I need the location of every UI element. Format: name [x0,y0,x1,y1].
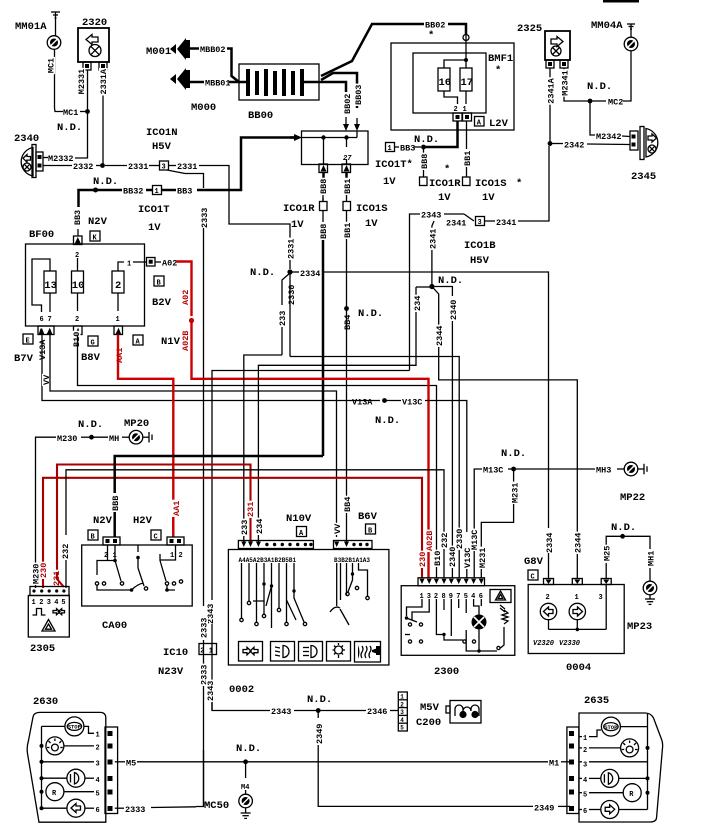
lamp STOP 2630 [42,717,95,736]
svg-text:1V: 1V [383,176,396,188]
square wave icon [33,609,46,616]
label 2341 vertical [429,228,438,250]
svg-text:2333: 2333 [200,618,210,638]
wire 233 into N10V [243,536,245,543]
svg-text:BBB: BBB [111,496,121,511]
wire MH1 [649,568,651,581]
svg-text:1V: 1V [482,192,495,204]
svg-text:MP22: MP22 [620,492,645,504]
svg-text:2349: 2349 [534,804,554,814]
wire to AO2 pin [133,261,146,263]
svg-text:ICO1R: ICO1R [283,203,315,215]
wire BB32 [96,189,123,192]
label BBB [420,153,429,170]
lamp icon in 2325 [551,46,561,56]
wire M230 [36,437,57,588]
svg-text:BB02: BB02 [425,21,445,31]
svg-text:2: 2 [200,648,204,656]
left arrow indicator circle [540,603,556,619]
wire diagonal from connector3 to 2333 [167,170,204,188]
svg-text:N.D.: N.D. [501,448,526,460]
svg-text:C: C [154,534,158,542]
pin BB1 bottom of box [342,164,351,178]
N10V internal wires [240,563,369,628]
wire BB03 leg inside [356,131,358,138]
svg-text:BMF1: BMF1 [488,53,513,65]
wire BB1 leg lower [346,159,348,164]
svg-text:N2V: N2V [93,515,113,527]
svg-text:N10V: N10V [286,513,312,525]
svg-text:13: 13 [44,280,57,292]
node 2334 junction [287,269,292,274]
wire BB02 to BMF1 [448,24,466,34]
label 2344 vertical [435,325,444,347]
label 2343 vertical lower [206,680,215,702]
wire 2343 horizontal [410,214,421,228]
node M25 junction [620,534,625,539]
node M231 junction [511,467,516,472]
label 2331A vertical [99,68,108,96]
connector pin ICO1R star [420,177,428,186]
wire MC2 [623,51,631,101]
wire A02B red down [192,321,429,533]
wire 231 red into N10V [249,518,251,543]
svg-text:M231: M231 [478,548,488,568]
wire M2331 [87,70,89,112]
svg-text:MC50: MC50 [204,800,229,812]
svg-text:2630: 2630 [33,696,58,708]
svg-text:MM04A: MM04A [591,20,623,32]
wire BB8 leg [323,138,325,165]
svg-text:MH3: MH3 [596,466,611,476]
earth point MH1 [643,581,657,595]
wire 232 bus [66,470,444,535]
label BB8 [319,178,328,195]
chassis symbol MP22 [638,464,647,475]
wire BB4 into N10V [346,513,348,543]
svg-text:C: C [531,574,535,582]
wire 2331A [102,70,104,166]
wire MBB01 [229,81,247,84]
svg-text:BB4: BB4 [343,315,353,330]
wire 2343 bottom corner [212,702,270,711]
wire 230 red bus [43,478,422,552]
svg-text:3: 3 [400,709,404,716]
connector H2V on CA00 [167,537,184,545]
svg-text:231: 231 [246,502,256,517]
svg-text:M1: M1 [549,759,559,769]
wire 2343 to diagonal [444,213,464,215]
svg-text:1: 1 [155,188,159,196]
wire V13C [385,400,402,402]
connector box 1 BB3 [386,143,400,154]
wire M4 to earth [245,790,247,794]
svg-text:M5: M5 [126,759,136,769]
svg-text:2: 2 [583,747,587,755]
wire M4 [245,762,247,778]
wire BB1 to pin [466,167,468,177]
svg-text:G: G [91,340,95,348]
label MH1 vertical [647,550,656,567]
svg-text:BB3: BB3 [400,144,415,154]
svg-text:V13A: V13A [352,398,373,408]
N10V icon box 5 fog lamp [355,642,381,663]
N10V icon box 1 turn signals [239,642,263,662]
svg-text:N2V: N2V [88,216,108,228]
wire M13C to dot [508,468,514,470]
wire V13C to 2300 [425,401,467,533]
label 231 red vertical at N10V [246,501,255,518]
connector strip 2300 [418,578,485,586]
svg-text:2343: 2343 [206,681,216,701]
svg-text:3: 3 [478,219,482,227]
wire 2334 into 0004 [548,553,550,579]
component 2305 box [28,596,69,638]
node V13A junction [382,398,387,403]
lamp R 2635 row5 [590,784,650,802]
wire 2344 down and right [439,347,578,533]
component N10V box [228,550,389,666]
svg-text:1: 1 [32,599,36,607]
BMF1 inner box [413,53,486,113]
svg-text:BB32: BB32 [123,187,143,197]
svg-text:H5V: H5V [152,141,172,153]
svg-text:5: 5 [61,599,65,607]
wire BB32 thick from corner [79,190,96,198]
connector block of 2345 [630,131,638,150]
svg-text:5: 5 [583,792,587,800]
wire 2332 from 2340 [43,165,72,167]
wire BB1 leg [346,138,348,148]
hazard triangle icon [42,620,55,632]
label 230 red vertical at 2300 [418,551,427,568]
svg-text:N.D.: N.D. [358,308,383,320]
svg-text:H2V: H2V [133,515,153,527]
wire 2340 right from node [432,287,453,297]
svg-text:BB3: BB3 [177,187,192,197]
svg-text:N.D.: N.D. [375,415,400,427]
label 2340 vertical at 2300 [448,546,457,568]
wire BB8 thick down [322,240,325,456]
label BB1 [463,150,472,167]
svg-text:BB00: BB00 [248,110,273,122]
svg-text:230: 230 [39,563,49,578]
wire VV [50,335,337,538]
wire 230 red into 2305 [42,485,44,588]
svg-text:N.D.: N.D. [307,694,332,706]
label 2330 vertical [287,284,296,306]
label MC1 vertical [47,57,56,74]
earth point MM04A [624,37,638,51]
label 232 vertical [61,543,70,560]
wire MBB02 [227,49,239,83]
svg-text:A02B: A02B [181,331,191,351]
svg-text:2: 2 [546,594,550,602]
lamp R 2630 row5 [40,783,95,801]
pin connector BMF1 pin1 [463,113,472,121]
svg-text:V13A: V13A [38,339,48,360]
svg-text:M25: M25 [603,546,613,561]
svg-text:2346: 2346 [367,707,387,717]
label BB4 vertical at N10V [343,496,352,513]
svg-text:STOP: STOP [604,724,618,731]
wire fuse2 top lead to AO2 [118,262,124,271]
wire 233 jog to left [244,355,282,520]
wire BB3 internal bus [302,137,357,139]
wire diagonal to 2341 line [464,214,474,221]
resistor and arrow in 2300 [500,605,508,648]
svg-text:2331: 2331 [177,162,197,172]
pin numbers 2305 [32,599,66,607]
node 2341 ND junction [429,284,434,289]
hazard triangle box in 2300 [490,590,511,603]
svg-text:VV: VV [333,523,343,534]
svg-text:*: * [428,30,434,42]
connector block of 2340 [36,152,43,171]
connector pin ICO1S (BB1) [343,195,351,211]
label AA1 red vertical at CA00 [172,500,181,517]
symbol M001 double triangle [170,38,199,60]
wire AA1 red [118,335,173,536]
fuse 16 [438,68,451,91]
component BF00 box [26,244,145,326]
wire BB02 branch [321,82,346,92]
wire 2343 to dot [294,710,318,712]
pin connector right of 2325 [560,60,568,68]
node A02 red junction [189,318,194,323]
label M13C vertical at 2300 [470,529,479,551]
decorative top-right bar [603,0,639,3]
node BB32 junction [93,188,98,193]
svg-text:L2V: L2V [489,118,509,130]
wire 2346 to connector [390,710,398,712]
wire BB03 branch [321,73,357,108]
wire 2349 into 2635 [558,805,570,807]
svg-text:1: 1 [116,316,120,324]
label 2344 vertical at 0004 [574,532,583,554]
connector strip 2630 [105,727,118,814]
boxed B [154,276,164,288]
label B10 vertical at 2300 [433,550,442,567]
pin 6/7 bottom connector [38,326,54,335]
svg-text:M2341: M2341 [561,70,571,96]
label 2341A vertical [547,77,556,105]
wire M2342 to 2345 [622,135,630,138]
svg-text:M231: M231 [511,483,521,503]
pin connector right of 2320 [99,62,107,70]
wire 2349 vertical [317,711,319,719]
svg-text:ICO1N: ICO1N [146,127,178,139]
label 231 red vertical [52,570,61,587]
wire M2342 down [590,101,595,135]
row3 wire 2635 [590,761,648,763]
connector box 21 [199,644,217,656]
svg-text:BB8: BB8 [420,154,430,169]
wire BBB to pin [423,170,425,177]
wire BB00 right lead [304,81,321,84]
svg-text:6: 6 [96,807,100,815]
svg-text:2340: 2340 [14,133,39,145]
wire 233 diagonal from node [282,273,290,305]
wire MC2 to junction [590,100,606,102]
wire BB8 below connector [322,211,324,223]
label 2333 vertical upper [200,617,209,639]
wire 2334 to 0004 [322,272,549,528]
wire 2343 bus left [212,371,410,601]
lamp in 2300 [472,613,487,651]
svg-text:16: 16 [439,77,452,89]
N10V icon box 3 high beam [299,642,323,662]
svg-text:N.D.: N.D. [78,419,103,431]
label 232 vertical at 2300 [440,532,449,549]
wire 232 into 2300 [443,549,445,578]
wire 2332 to junction [96,165,103,167]
fuse 17 [460,68,473,91]
wire fuse2 bottom lead [117,293,119,311]
wire B10 [78,335,437,579]
wire M25 corner [606,536,650,549]
earth point MM01A (screw circle) [47,36,61,50]
svg-text:2341: 2341 [446,219,466,229]
svg-text:CA00: CA00 [102,620,127,632]
svg-text:1V: 1V [365,218,378,230]
svg-text:N.D.: N.D. [236,743,261,755]
svg-text:232: 232 [61,544,71,559]
pin numbers 2300 [420,593,484,601]
wire 2342 to 2345 [587,143,630,146]
svg-text:MP23: MP23 [627,621,652,633]
wire 2343 segment [211,624,213,711]
svg-text:*: * [495,65,501,77]
wire BB8 into CA00 [113,512,116,537]
svg-text:BB8: BB8 [319,224,329,239]
svg-text:ICO1S: ICO1S [475,178,507,190]
wire fuse13 top loop [32,259,50,312]
component CA00 box [82,545,193,606]
wire 230 red into 2300 [421,568,423,578]
label 233 vertical [278,310,287,327]
wire BBB down [423,147,425,153]
pin numbers 1 2 right [170,552,183,560]
wire 2331 to corner [199,166,290,270]
svg-text:BB3: BB3 [73,210,83,225]
connector box 3 ICO1B [476,217,485,228]
label AA1 red vertical [115,347,124,364]
pin connector BMF1 pin2 [453,113,462,121]
svg-text:2331: 2331 [287,239,297,259]
wire MC1 to junction [80,111,87,113]
component 2630 outline [27,712,106,822]
node MH junction [89,435,94,440]
svg-text:3: 3 [599,594,603,602]
svg-text:MBB02: MBB02 [200,45,226,55]
wire 2333 segment [203,640,205,806]
svg-text:M5V: M5V [420,702,440,714]
svg-text:B7V: B7V [14,353,34,365]
svg-text:1: 1 [575,594,579,602]
label M25 vertical [603,545,612,562]
label 234 vertical at N10V [255,518,264,535]
label VV vertical at N10V [333,523,342,535]
boxed B CA00 [88,530,98,542]
ground MM01A [51,12,60,36]
label BB4 [343,314,352,331]
lamp arrow 2635 row6 [590,801,648,819]
wire A02 red from BF00 [176,262,192,317]
label BB03 vertical [354,84,363,106]
svg-text:1: 1 [127,261,131,269]
arrow icon in 2320 [86,35,98,45]
label M231 vertical at 2300 [478,547,487,569]
svg-text:2343: 2343 [421,211,441,221]
svg-text:10: 10 [72,280,85,292]
svg-text:2333: 2333 [125,805,145,815]
chassis symbol MP20 [143,432,152,443]
wire 2331 after connector [169,165,177,167]
svg-text:B3B2B1A1A3: B3B2B1A1A3 [334,557,370,564]
label 2331 vertical [287,238,296,260]
2630 inner rail [41,726,43,808]
svg-text:2: 2 [400,701,404,708]
wire 2344 into 0004 [576,553,578,579]
wire M1 to 2635 [561,761,570,763]
BB00 cell bars [246,69,304,96]
wire M13C up from 2300 [474,469,482,532]
svg-text:MP20: MP20 [124,418,149,430]
svg-text:N.D.: N.D. [587,81,612,93]
boxed B N10V [366,524,376,536]
wire MH3 [514,468,595,470]
svg-text:17: 17 [461,77,474,89]
svg-text:2330: 2330 [455,529,465,549]
right arrow indicator circle [569,603,585,619]
label 234 vertical [413,295,422,312]
svg-text:4: 4 [54,599,58,607]
wire MC1 from earth point [55,50,64,112]
label VV vertical [42,374,51,386]
wire BB03 stub arrow to box [354,118,360,131]
svg-text:2345: 2345 [631,171,656,183]
svg-text:N.D.: N.D. [57,122,82,134]
svg-text:1: 1 [400,694,404,701]
wire stub to label [155,261,161,263]
wire BB3 thick to BB box [197,138,294,191]
ground MC50 [241,808,251,819]
component 2325 box [545,31,570,60]
boxed K [90,231,100,243]
node BMF1 top junction [464,58,468,62]
svg-text:2330: 2330 [287,285,297,305]
svg-text:AA1: AA1 [172,501,182,516]
wire to fuse 16 [444,60,466,68]
svg-text:N23V: N23V [158,666,184,678]
connector stack 1-5 [398,692,407,732]
label 2334 vertical at 0004 [545,532,554,554]
label 2349 vertical [315,723,324,745]
wire M231 into 2300 [480,532,482,578]
wire BB1 below connector [346,211,348,223]
svg-text:M2332: M2332 [48,154,74,164]
wire BB3 [162,189,177,192]
wire 2333 bottom [196,750,204,807]
svg-text:2305: 2305 [30,643,55,655]
wire 2343 vertical down [409,228,411,371]
ground MM04A [627,24,635,37]
svg-text:N.D.: N.D. [93,176,118,188]
svg-text:2344: 2344 [574,533,584,553]
svg-text:2341: 2341 [496,218,516,228]
wire row6 2333 out [115,807,124,809]
